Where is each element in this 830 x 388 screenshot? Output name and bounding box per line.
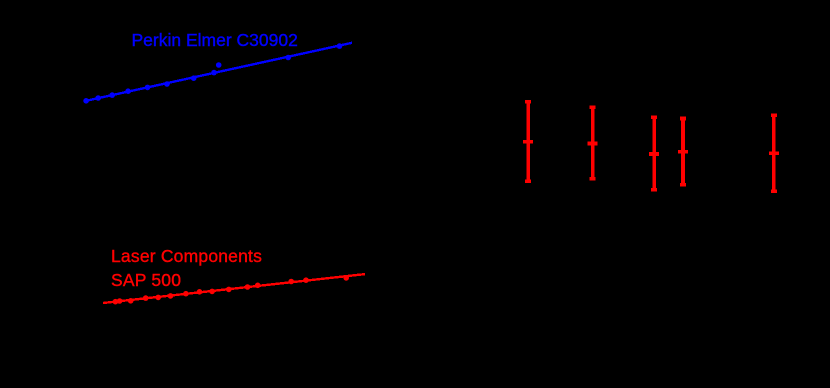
red data points — [113, 275, 349, 304]
error bar 2 — [588, 107, 598, 178]
svg-text:SAP 500: SAP 500 — [111, 270, 181, 290]
error bar 1 — [523, 102, 533, 181]
blue fit line (Perkin Elmer C30902) — [86, 43, 352, 101]
error bar 5 — [769, 115, 779, 191]
svg-text:Laser Components: Laser Components — [111, 246, 262, 266]
error bar 4 — [678, 119, 688, 185]
blue data points — [83, 43, 342, 103]
red fit line (Laser Components SAP 500) — [103, 274, 365, 303]
svg-text:Perkin Elmer C30902: Perkin Elmer C30902 — [132, 30, 298, 50]
error bar 3 — [649, 117, 659, 190]
